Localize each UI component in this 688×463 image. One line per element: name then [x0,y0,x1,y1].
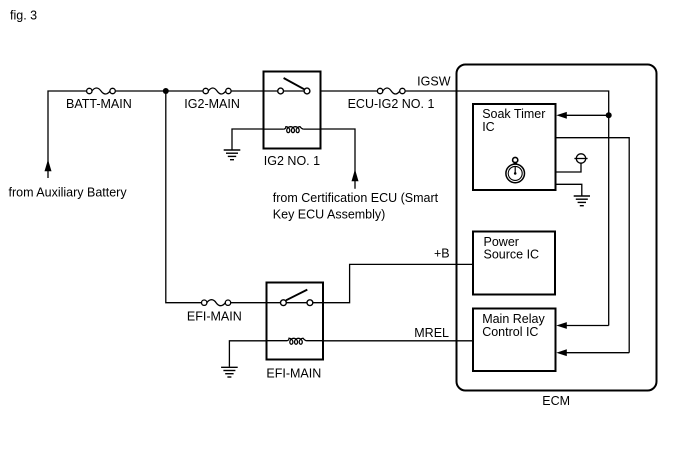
svg-text:BATT-MAIN: BATT-MAIN [66,97,132,111]
wire: Soak Timer IC out right, down to Main Relay arrow 2 [556,138,630,353]
Power Source IC box [473,232,555,295]
oscillator/body symbol (circle with line) [574,154,587,163]
arrow 1 into Main Relay Control IC [556,322,567,329]
wire: relay coil to ground [232,129,264,150]
wire IGSW: fuse into ECM, down right side [405,91,609,326]
fuse BATT-MAIN [87,88,116,94]
svg-text:EFI-MAIN: EFI-MAIN [266,367,321,381]
wire: EFI relay coil to ground [229,341,266,367]
fuse ECU-IG2 NO. 1 [377,88,405,94]
svg-text:from Certification ECU (Smart: from Certification ECU (Smart [273,191,439,205]
ground (EFI-MAIN relay coil) [221,367,238,377]
wire: IG2-MAIN fuse to relay [231,90,263,92]
svg-text:IC: IC [482,120,495,134]
ground (IG2 NO. 1 relay coil) [224,150,241,160]
node: junction dot on IGSW branch [606,112,612,118]
soak timer stopwatch icon [506,157,525,182]
wire: main bus down from junction to EFI-MAIN row [166,91,202,303]
wire: Soak Timer IC to oscillator symbol [556,163,582,172]
wire MREL: EFI relay coil to Main Relay Control IC [323,340,473,342]
svg-text:ECU-IG2 NO. 1: ECU-IG2 NO. 1 [348,97,435,111]
svg-text:ECM: ECM [542,394,570,408]
wire: IG2 relay coil to certification ECU arrow [321,129,356,189]
relay IG2 NO. 1 box [264,72,321,149]
relay EFI-MAIN box [267,283,324,360]
ground (Soak Timer IC) [574,196,590,206]
wire: battery feed vertical with corner to top bus [48,91,87,178]
wire: top bus between fuses [115,90,203,92]
wire: relay switch out to ECU-IG2 fuse [321,90,378,92]
relay IG2 NO. 1 coil [264,127,321,133]
relay IG2 NO. 1 switch [264,78,310,94]
svg-text:IG2 NO. 1: IG2 NO. 1 [264,154,320,168]
relay EFI-MAIN switch [267,290,324,306]
svg-text:fig. 3: fig. 3 [10,9,37,23]
ECM box [457,65,657,391]
wire: EFI relay switch up to +B into Power Source IC [323,264,473,302]
fuse IG2-MAIN [203,88,231,94]
wire: EFI-MAIN fuse to relay [231,302,267,304]
svg-text:Key ECU Assembly): Key ECU Assembly) [273,208,386,222]
svg-text:from Auxiliary Battery: from Auxiliary Battery [9,186,128,200]
fuse EFI-MAIN [202,300,231,306]
wire: branch to Soak Timer IC with arrow [564,114,609,116]
arrow 2 into Main Relay Control IC [556,349,567,356]
svg-text:MREL: MREL [414,326,449,340]
svg-text:+B: +B [434,247,450,261]
Soak Timer IC box [473,104,556,190]
svg-text:IGSW: IGSW [417,75,451,89]
svg-text:EFI-MAIN: EFI-MAIN [187,310,242,324]
wire: IGSW branch into Main Relay Control IC (arrow 1) [564,325,609,327]
svg-text:IG2-MAIN: IG2-MAIN [184,97,240,111]
wire: Soak Timer branch into Main Relay Control IC (arrow 2) [564,352,629,354]
svg-text:Control IC: Control IC [482,325,538,339]
relay EFI-MAIN coil [267,338,324,344]
svg-text:Source IC: Source IC [484,248,540,262]
arrow from Certification ECU (up) [352,169,359,181]
node: junction dot at main bus [163,88,169,94]
arrow into Soak Timer IC [556,112,567,119]
arrow from Auxiliary Battery (up) [45,160,52,172]
wire: Soak Timer IC to ground [556,184,582,195]
Main Relay Control IC box [473,309,556,372]
